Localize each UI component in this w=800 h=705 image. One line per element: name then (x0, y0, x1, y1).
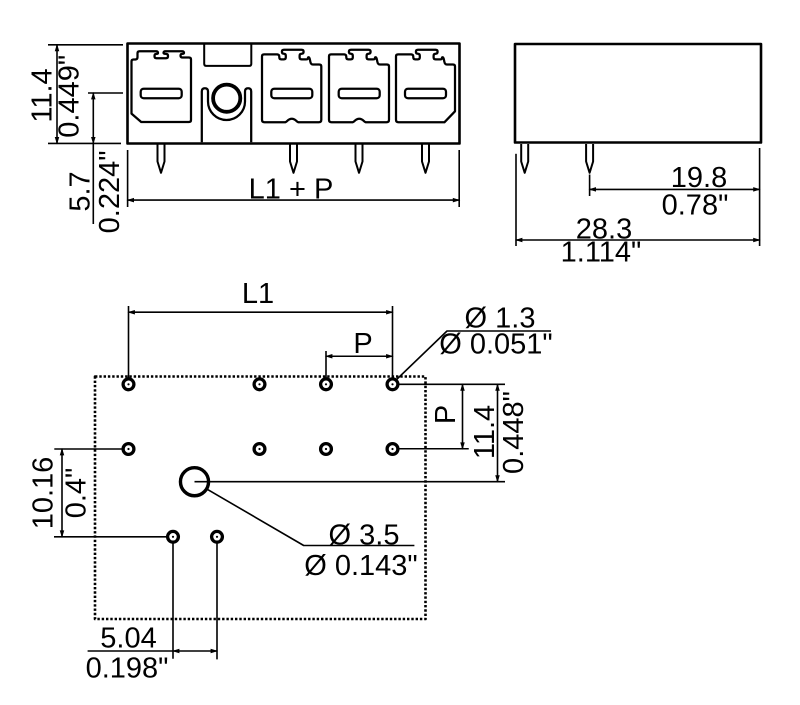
slot 3 (pole 3 opening, hump at bottom) (329, 50, 389, 123)
svg-text:0.198": 0.198" (86, 653, 169, 685)
dimension P top extension line (325, 351, 327, 381)
pin 4 (front view) (422, 144, 429, 173)
pad row 2 hole 3 (321, 444, 332, 455)
svg-text:1.114": 1.114" (561, 237, 642, 269)
flange tab rectangle above screw (204, 45, 251, 66)
pad row 3 hole 2 (212, 531, 223, 542)
right extension lines (394, 384, 505, 448)
svg-text:Ø 3.5: Ø 3.5 (329, 520, 400, 552)
screw channel with U pocket (202, 88, 251, 142)
slot 4 (pole 4 opening, bevel bottom-right) (396, 50, 455, 123)
dimension P right line (462, 384, 464, 448)
pad row 1 hole 4 (387, 379, 398, 390)
pad row 1 hole 1 (123, 379, 134, 390)
dimension 5.04 line (173, 650, 217, 652)
dimension 11.4 extension lines (48, 45, 123, 144)
slot 1 wire hole (141, 89, 182, 99)
svg-text:Ø 0.051": Ø 0.051" (439, 329, 552, 361)
slot 1 (pole 1 opening, two tabs, bevel bottom-left) (132, 51, 192, 122)
dimension 19.8 line (590, 188, 760, 190)
pad row 1 hole 3 (321, 379, 332, 390)
large screw hole (180, 468, 208, 496)
svg-text:P: P (353, 328, 372, 360)
side pin 2 (586, 144, 593, 173)
dimension 10.16 line (61, 449, 63, 537)
side pin 1 (521, 144, 528, 173)
large screw hole centre line (195, 481, 506, 483)
svg-text:P: P (430, 405, 462, 424)
slot 4 wire hole (405, 89, 446, 99)
dimension 28.3 extension line (515, 154, 517, 246)
dimension 5.7 line (92, 93, 94, 143)
svg-text:0.78": 0.78" (662, 190, 729, 222)
svg-text:L1 + P: L1 + P (249, 174, 334, 206)
screw circle (213, 85, 240, 112)
dimension L1+P line (128, 199, 460, 201)
dimension L1+P extension lines (128, 150, 460, 207)
svg-text:0.449": 0.449" (54, 55, 86, 138)
bottom extension lines (173, 540, 217, 659)
svg-text:5.04: 5.04 (100, 623, 156, 655)
pin 3 (front view) (356, 144, 363, 173)
side view body outline (515, 44, 761, 143)
slot 2 (pole 2 opening, hump at bottom) (262, 50, 321, 123)
pad row 2 hole 4 (387, 444, 398, 455)
dimension L1 extension lines (129, 306, 393, 381)
pad row 2 hole 2 (254, 444, 265, 455)
svg-text:0.448": 0.448" (498, 391, 530, 474)
leader diameter 3.5 (208, 489, 415, 545)
slot 3 wire hole (339, 89, 380, 99)
left extension lines (54, 449, 167, 537)
leader diameter 1.3 (395, 331, 552, 382)
pad row 2 hole 1 (123, 444, 134, 455)
dimension 11.4 right line (497, 384, 499, 481)
svg-text:10.16: 10.16 (28, 457, 60, 530)
dimension 5.7 leader divider (92, 143, 94, 224)
svg-text:11.4: 11.4 (469, 405, 501, 459)
front view body outline (128, 44, 460, 144)
dimension 19.8 extension lines (590, 148, 760, 246)
svg-text:Ø 0.143": Ø 0.143" (304, 550, 417, 582)
pin 2 (front view) (290, 144, 297, 173)
dimension 11.4 line (56, 45, 58, 144)
drilling plan dotted outline (95, 377, 426, 620)
dimension P top line (326, 355, 393, 357)
svg-text:0.4": 0.4" (61, 468, 93, 519)
svg-text:5.7: 5.7 (65, 171, 97, 211)
pad row 3 hole 1 (168, 531, 179, 542)
svg-text:L1: L1 (242, 278, 274, 310)
svg-text:0.224": 0.224" (94, 150, 126, 233)
dimension 5.04 underline (88, 650, 173, 652)
slot 2 wire hole (271, 89, 312, 99)
pad row 1 hole 2 (254, 379, 265, 390)
dimension 28.3 line (516, 239, 760, 241)
dimension L1 line (129, 311, 393, 313)
pin 1 (front view) (158, 144, 165, 173)
